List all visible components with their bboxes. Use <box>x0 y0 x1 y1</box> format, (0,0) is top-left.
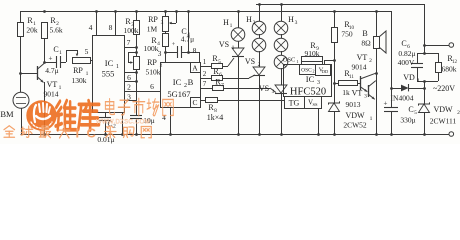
svg-text:2: 2 <box>253 20 256 26</box>
svg-text:RP: RP <box>148 15 158 24</box>
op-amp U IC2 5G167 box <box>161 63 201 108</box>
svg-text:DD: DD <box>322 69 329 74</box>
svg-text:5.6k: 5.6k <box>49 26 62 35</box>
svg-text:VDW: VDW <box>345 111 365 120</box>
wire AC corner down <box>423 4 426 55</box>
svg-text:1: 1 <box>116 64 119 70</box>
resistor R6 1k <box>200 67 249 81</box>
svg-text:1: 1 <box>232 45 235 51</box>
capacitor C3b 4.7u coupling <box>172 27 195 58</box>
wire VS3 gate <box>270 88 276 93</box>
capacitor C5 330u <box>384 100 418 135</box>
svg-text:VT: VT <box>352 89 363 98</box>
svg-text:4: 4 <box>89 23 93 32</box>
svg-text:OSC: OSC <box>283 57 296 64</box>
svg-text:IC: IC <box>306 74 315 84</box>
svg-text:8: 8 <box>193 46 197 55</box>
svg-text:C: C <box>408 105 413 114</box>
svg-text:1: 1 <box>370 116 373 122</box>
svg-text:+: + <box>49 55 53 63</box>
potentiometer RP1 130k <box>66 50 92 85</box>
svg-text:7: 7 <box>221 83 224 89</box>
svg-text:4.7μ: 4.7μ <box>181 35 194 44</box>
node junction dots upper bus <box>258 3 283 6</box>
pin C cell IC2 <box>190 97 200 107</box>
svg-text:2: 2 <box>203 70 207 78</box>
node junction dots bottom bus <box>43 133 426 136</box>
svg-text:9013: 9013 <box>346 100 361 109</box>
wire VS2 gate <box>249 75 255 78</box>
svg-text:1: 1 <box>59 50 62 56</box>
resistor R8 1k <box>200 98 284 123</box>
wire VDD vertical to R11 and VDW1 <box>333 60 336 85</box>
resistor R2 <box>42 16 63 62</box>
pin 3 lead IC2 <box>158 49 166 62</box>
svg-text:8Ω: 8Ω <box>361 39 371 48</box>
pin 5 label IC1 <box>85 47 89 56</box>
svg-text:+: + <box>384 100 388 108</box>
pin 8 lead IC2 <box>193 46 200 62</box>
resistor R11 1k <box>334 69 360 97</box>
svg-text:3: 3 <box>272 89 275 95</box>
wire IC1 ground lead <box>122 112 124 134</box>
svg-text:3: 3 <box>161 20 164 26</box>
svg-text:HFC520: HFC520 <box>290 87 326 98</box>
svg-text:5: 5 <box>85 47 89 56</box>
pin VDD cell <box>316 65 331 76</box>
capacitor C6 0.82u 400V <box>398 39 423 81</box>
svg-text:2: 2 <box>313 69 315 74</box>
svg-text:SS: SS <box>312 102 318 107</box>
svg-text:IC: IC <box>173 77 182 87</box>
lamp H3 middle <box>274 34 288 52</box>
svg-text:B: B <box>188 77 194 87</box>
svg-text:IC: IC <box>105 58 114 68</box>
svg-text:20k: 20k <box>26 26 38 35</box>
svg-text:3: 3 <box>317 80 320 86</box>
svg-text:VT: VT <box>357 53 368 62</box>
lamp H3 upper <box>274 4 297 35</box>
microphone BM <box>0 73 29 134</box>
svg-text:1: 1 <box>296 59 298 64</box>
svg-text:330μ: 330μ <box>400 116 415 125</box>
thyristor VS1 <box>219 40 244 134</box>
thyristor VS2 <box>245 51 265 134</box>
pin 2 wire IC1 <box>124 82 136 92</box>
node pin7 node dot <box>135 46 138 49</box>
terminal AC top <box>424 43 454 48</box>
svg-text:2: 2 <box>258 62 261 68</box>
svg-text:5G167: 5G167 <box>167 89 190 99</box>
svg-text:4.7μ: 4.7μ <box>45 66 58 75</box>
svg-text:2CW52: 2CW52 <box>343 121 367 130</box>
pin 6 wire IC1 <box>124 73 136 83</box>
potentiometer RP2 510k <box>128 47 163 83</box>
svg-text:C: C <box>192 98 197 107</box>
svg-text:+: + <box>172 41 176 48</box>
svg-text:C: C <box>53 45 58 54</box>
resistor R4 100k <box>144 31 169 53</box>
wire node row to IC2 pin3 pin8 <box>164 11 199 54</box>
pin 4 lead IC1 <box>89 11 97 35</box>
label 220V AC <box>433 84 455 93</box>
svg-text:1: 1 <box>203 58 207 66</box>
svg-text:3: 3 <box>158 49 162 58</box>
svg-text:1k×4: 1k×4 <box>207 113 224 122</box>
wire bottom ground bus <box>21 134 450 136</box>
thyristor VS3 <box>259 68 287 134</box>
svg-text:C: C <box>401 39 406 48</box>
wire VSS ground lead <box>318 108 320 134</box>
resistor R3 100k <box>124 11 140 47</box>
svg-text:VT: VT <box>47 80 58 89</box>
node C1 node dot <box>43 61 46 64</box>
svg-text:VDW: VDW <box>433 105 453 114</box>
pin A cell IC2 <box>190 62 200 73</box>
resistor R1 <box>18 16 38 73</box>
lamp H2 upper <box>246 4 266 35</box>
svg-text:2: 2 <box>127 83 131 92</box>
svg-text:100k: 100k <box>124 26 139 35</box>
pin OSC2 cell <box>300 65 316 75</box>
transistor VT1 9014 <box>37 62 62 134</box>
svg-text:H: H <box>288 15 294 24</box>
svg-text:8: 8 <box>109 23 113 32</box>
svg-text:I: I <box>76 126 80 141</box>
svg-text:6: 6 <box>127 73 131 82</box>
pin 4 lead IC2 <box>162 107 170 134</box>
svg-text:1M: 1M <box>147 25 158 34</box>
svg-text:130k: 130k <box>72 76 87 85</box>
resistor R9 910k <box>302 41 323 64</box>
resistor R7 1k <box>200 78 270 91</box>
svg-text:VS: VS <box>245 57 255 66</box>
transistor VT3 9013 <box>346 81 376 109</box>
capacitor C2 0.01u <box>97 112 116 144</box>
wire C6 R12 top <box>417 53 438 55</box>
svg-text:RP: RP <box>73 66 83 75</box>
svg-text:11: 11 <box>349 75 354 80</box>
wire VDD to R10 <box>324 59 336 64</box>
svg-text:1: 1 <box>59 85 62 91</box>
transistor VT2 9014 <box>352 53 376 92</box>
svg-text:680k: 680k <box>442 65 457 74</box>
pin TG cell <box>285 97 305 109</box>
pin VSS cell <box>305 97 322 109</box>
svg-text:VS: VS <box>219 40 229 49</box>
svg-text:7: 7 <box>127 38 131 47</box>
svg-text:TG: TG <box>289 99 300 108</box>
capacitor C3 10u timing <box>130 81 155 134</box>
svg-text:B: B <box>362 29 367 38</box>
svg-text:9014: 9014 <box>352 63 367 72</box>
watermark logo and text <box>4 98 173 140</box>
svg-text:~220V: ~220V <box>433 84 455 93</box>
node junction dots top bus <box>43 10 378 13</box>
node VD1 anode dot <box>390 87 393 90</box>
wire C6 R12 bottom <box>417 80 438 90</box>
pin 3 wire IC1 to IC2 pin 6 <box>124 82 160 102</box>
svg-text:910k: 910k <box>305 49 320 58</box>
svg-text:100k: 100k <box>144 44 159 53</box>
svg-text:1: 1 <box>230 23 233 29</box>
pin 8 lead IC1 <box>109 11 116 35</box>
svg-text:BM: BM <box>0 109 14 119</box>
svg-text:7: 7 <box>203 80 207 88</box>
svg-text:9014: 9014 <box>44 90 59 99</box>
svg-text:1: 1 <box>417 78 420 84</box>
wire left rail <box>20 11 22 22</box>
lamp H2 lower <box>252 34 266 52</box>
resistor R5 1k <box>200 54 228 69</box>
svg-text:3: 3 <box>364 94 367 100</box>
wire right rail down <box>391 11 393 108</box>
zener diode VDW2 2CW111 <box>419 88 460 134</box>
resistor R12 680k <box>436 53 458 81</box>
svg-text:2CW111: 2CW111 <box>430 117 457 126</box>
potentiometer RP3 1M <box>147 11 177 34</box>
node VT collector dot <box>375 72 378 75</box>
svg-text:0.82μ: 0.82μ <box>398 49 415 58</box>
svg-text:510k: 510k <box>146 68 161 77</box>
svg-text:H: H <box>223 18 229 27</box>
diode VD1 IN4004 <box>391 73 424 103</box>
terminal AC bottom <box>449 132 454 137</box>
wire VS1 gate <box>228 58 234 66</box>
speaker B 8ohm <box>361 11 386 134</box>
capacitor C1 4.7u <box>44 45 66 75</box>
svg-text:VD: VD <box>403 73 415 82</box>
svg-text:750: 750 <box>341 30 353 39</box>
svg-text:H: H <box>246 15 252 24</box>
lamp H1 <box>223 11 245 41</box>
svg-text:WWW.DZSC.COM: WWW.DZSC.COM <box>96 120 150 126</box>
node base node dot <box>19 72 22 75</box>
svg-text:400V: 400V <box>398 58 415 67</box>
svg-text:555: 555 <box>102 69 115 79</box>
pin 7 wire IC1 <box>124 38 136 48</box>
svg-text:2: 2 <box>369 58 372 64</box>
svg-text:5: 5 <box>218 59 221 65</box>
svg-text:1k: 1k <box>342 88 350 97</box>
svg-text:6: 6 <box>150 82 154 91</box>
pin OSC1 label <box>283 57 299 65</box>
wire VT1 base wire <box>21 73 38 75</box>
op-amp U IC1 555 timer box <box>93 36 125 113</box>
zener diode VDW1 2CW52 <box>329 83 373 134</box>
op-amp U IC3 HFC520 box <box>284 65 332 98</box>
wire upper AC bus <box>256 4 424 6</box>
svg-text:IN4004: IN4004 <box>391 94 414 103</box>
lamp H3 lower <box>274 51 288 69</box>
resistor R10 750 <box>332 11 355 60</box>
wire top VDD bus <box>21 11 392 13</box>
svg-text:OSC: OSC <box>301 68 312 74</box>
svg-text:VS: VS <box>259 84 269 93</box>
svg-text:3: 3 <box>295 20 298 26</box>
svg-text:C: C <box>87 126 97 141</box>
svg-text:RP: RP <box>147 58 157 67</box>
svg-text:A: A <box>192 64 198 73</box>
